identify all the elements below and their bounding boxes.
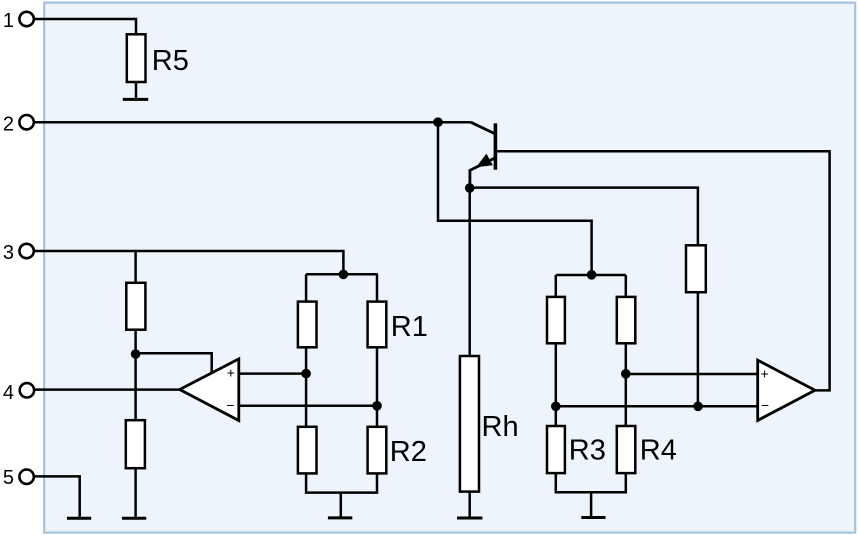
wire: top rail to R1 — [376, 274, 379, 301]
terminal 5 — [3, 467, 34, 489]
svg-text:+: + — [761, 366, 769, 382]
wire: R3/R4 block bottom rail — [556, 473, 626, 492]
node F (- input junction) — [372, 401, 382, 411]
wire: U1 - input to node F — [239, 405, 377, 408]
wire: node B to Rh — [468, 188, 471, 356]
svg-text:R1: R1 — [391, 311, 428, 343]
wire: R1 to R2 through node F — [376, 347, 379, 427]
wire: bottom rail to ground stub — [340, 493, 343, 517]
wire: node D to U1 top edge — [136, 353, 212, 373]
svg-text:5: 5 — [3, 467, 14, 489]
wire: terminal 4 to U1 output — [34, 388, 180, 391]
svg-text:R4: R4 — [640, 434, 677, 466]
ground (R3/R4 block) — [581, 516, 605, 519]
wire: rail to R12 — [625, 275, 628, 297]
resistor R1 — [368, 302, 428, 348]
resistor R6 (unlabeled, right) — [686, 245, 706, 292]
wire: R1 block top rail — [306, 273, 378, 276]
wire: R3/R4 block top rail — [556, 274, 626, 277]
resistor Rh — [460, 356, 519, 492]
svg-text:−: − — [761, 397, 769, 413]
node A (junction dot on terminal-2 wire) — [433, 117, 443, 127]
wire: R11 to R3 through node H — [555, 343, 558, 426]
svg-text:R2: R2 — [390, 436, 427, 468]
op-amp U2 (points right) — [758, 360, 815, 420]
node E (+ input junction) — [301, 369, 311, 379]
wire: Q1 base to U2 output — [497, 151, 830, 390]
wire: R8 to ground — [134, 468, 137, 517]
node I (+ line junction at R4) — [621, 369, 631, 379]
ground (below Rh) — [457, 517, 482, 520]
ground (terminal 5) — [67, 517, 91, 520]
svg-text:Rh: Rh — [482, 411, 519, 443]
resistor R7 (unlabeled, left column top) — [126, 283, 145, 330]
wire: node H to U2 - input — [556, 405, 758, 408]
node C (top of R1 block) — [339, 270, 349, 280]
svg-text:+: + — [227, 365, 235, 381]
wire: Rh to ground — [468, 492, 471, 517]
resistor R9 (unlabeled, left branch of R1 block) — [298, 302, 317, 348]
wire: R12 to R4 through node I — [625, 343, 628, 426]
terminal 4 — [3, 382, 34, 404]
svg-text:R3: R3 — [569, 434, 606, 466]
wire: node I to U2 + input — [626, 373, 758, 376]
wire: terminal 2 to node A — [34, 121, 438, 124]
node H (- line junction at R3) — [551, 402, 561, 412]
op-amp U1 (points left) — [180, 359, 239, 421]
transistor Q1 — [438, 122, 495, 188]
wire: terminal 3 to node C — [34, 251, 344, 274]
wire: node D to R8 — [134, 354, 137, 420]
wire: R1 block bottom rail — [306, 473, 377, 492]
wire: R7 to node D — [134, 330, 137, 354]
resistor R5 — [127, 34, 189, 82]
svg-text:R5: R5 — [152, 45, 189, 77]
wire: terminal-3 wire down to R7 — [134, 251, 137, 283]
wire: R5 to ground — [135, 82, 138, 98]
ground (R1/R2 block) — [328, 516, 352, 519]
resistor R2 — [368, 427, 427, 474]
svg-text:4: 4 — [3, 382, 14, 404]
node G (top of R3/R4 block) — [587, 270, 597, 280]
wire: rail to R11 — [555, 275, 558, 297]
wire: terminal 5 to ground — [34, 476, 80, 516]
wire: terminal 1 to R5 — [34, 19, 136, 34]
resistor R11 (unlabeled, above R3) — [547, 297, 565, 343]
terminal 1 — [3, 10, 34, 32]
wire: node B to right resistor R6 — [470, 188, 698, 246]
terminal 3 — [3, 242, 34, 264]
resistor R10 (unlabeled, below node E) — [298, 427, 317, 474]
wire: U1 + input to node E — [239, 372, 306, 375]
resistor R12 (unlabeled, above R4) — [617, 297, 636, 343]
svg-text:2: 2 — [3, 113, 14, 135]
wire: node A down to R3/R4 block top — [438, 122, 592, 275]
terminal 2 — [3, 113, 34, 135]
ground (left column) — [122, 517, 146, 520]
node J (R6 on - line) — [693, 402, 703, 412]
resistor R3 — [547, 426, 606, 473]
wire: bottom rail to ground stub — [590, 492, 593, 516]
node D (left column junction) — [131, 349, 141, 359]
svg-text:−: − — [226, 397, 234, 413]
ground (below R5) — [123, 98, 148, 101]
wire: top rail to R9 — [305, 274, 308, 301]
wire: R6 to node J — [697, 292, 700, 406]
svg-text:3: 3 — [3, 242, 14, 264]
svg-text:1: 1 — [3, 10, 14, 32]
resistor R8 (unlabeled, left column bottom) — [126, 420, 145, 468]
node B (emitter junction dot) — [465, 183, 475, 193]
resistor R4 — [617, 426, 677, 473]
wire: R9 to R10 through node E — [305, 347, 308, 427]
